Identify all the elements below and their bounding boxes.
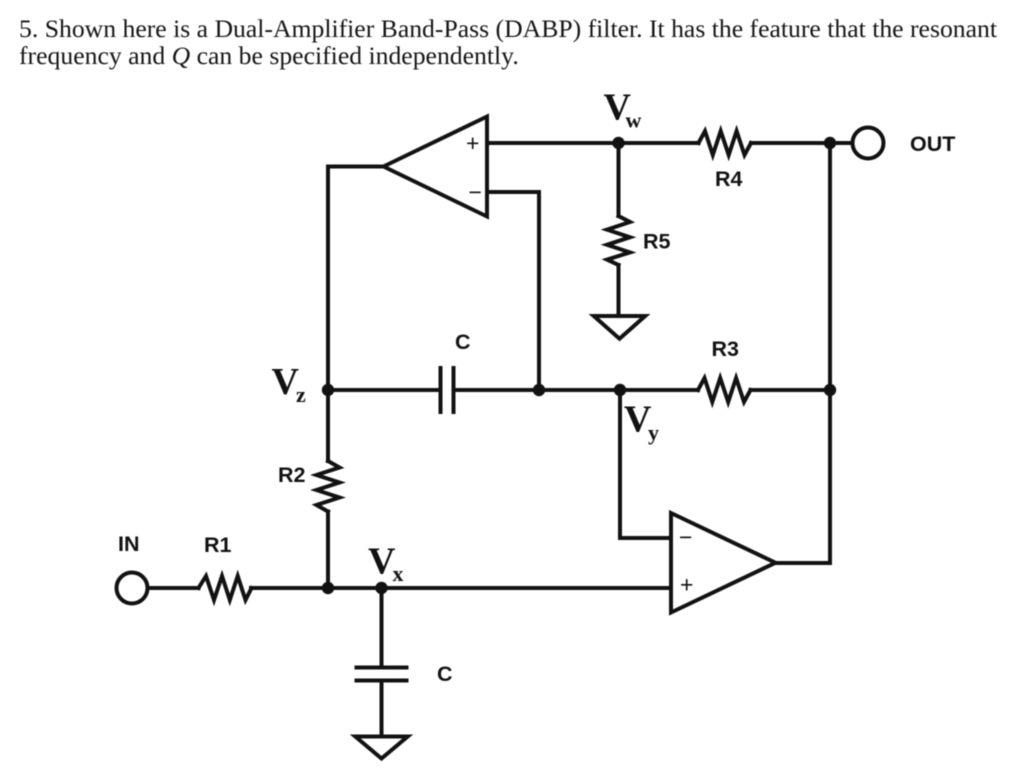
wire [454, 388, 540, 392]
ground [594, 316, 645, 339]
wire [828, 143, 832, 563]
svg-text:w: w [626, 108, 642, 133]
resistor R4 [699, 131, 752, 155]
wire [380, 588, 384, 668]
svg-text:−: − [679, 524, 692, 550]
wire [487, 141, 619, 145]
terminal OUT [853, 128, 884, 159]
svg-text:+: + [680, 572, 693, 598]
svg-text:R1: R1 [204, 533, 232, 557]
op-amp U1 [384, 117, 488, 217]
wire [251, 586, 671, 590]
wire [487, 192, 539, 390]
capacitor C [441, 368, 454, 412]
wire [751, 141, 852, 145]
node [824, 137, 836, 149]
terminal IN [117, 573, 148, 604]
node Vx [375, 582, 387, 594]
svg-text:−: − [469, 179, 482, 205]
wire [380, 681, 384, 735]
resistor R5 [607, 216, 630, 265]
svg-text:+: + [466, 130, 479, 156]
node Vz [322, 384, 334, 396]
svg-text:R4: R4 [715, 167, 743, 191]
wire [617, 143, 621, 216]
resistor R2 [317, 461, 340, 512]
wire [539, 388, 620, 392]
svg-text:z: z [296, 382, 306, 407]
node [824, 384, 836, 396]
svg-text:R2: R2 [278, 463, 306, 487]
svg-text:OUT: OUT [910, 132, 955, 156]
wire [620, 390, 671, 538]
node [533, 384, 545, 396]
svg-text:x: x [393, 561, 404, 586]
wire [620, 388, 698, 392]
svg-text:IN: IN [118, 532, 140, 556]
wire [148, 586, 199, 590]
svg-text:C: C [437, 662, 453, 686]
node [322, 582, 334, 594]
wire [619, 141, 699, 145]
op-amp U2 [671, 513, 776, 613]
resistor R3 [698, 378, 751, 402]
wire [751, 388, 831, 392]
wire [326, 512, 330, 589]
svg-text:R5: R5 [643, 230, 671, 254]
wire [328, 388, 441, 392]
wire [328, 167, 384, 391]
resistor R1 [199, 576, 252, 600]
capacitor C2 [357, 668, 407, 681]
wire [617, 265, 621, 314]
svg-text:C: C [455, 330, 471, 354]
wire [776, 561, 831, 565]
ground [355, 737, 407, 759]
node Vw [612, 137, 624, 149]
wire [326, 390, 330, 461]
node Vy [614, 384, 626, 396]
svg-text:R3: R3 [712, 337, 740, 361]
svg-text:y: y [648, 420, 659, 445]
